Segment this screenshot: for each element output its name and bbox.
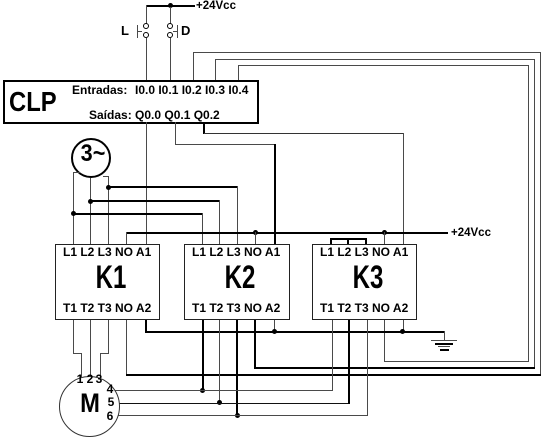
- pushbutton D actuator: [177, 25, 178, 38]
- ground symbol bar 3: [438, 346, 450, 347]
- node +24 bus K2 NO: [253, 230, 258, 235]
- wire +24 bus to K3 NO: [384, 232, 385, 245]
- ground symbol stem: [444, 331, 445, 340]
- wire input I0.3 riser: [215, 59, 216, 80]
- wire I0.2 bottom horizontal K1 NO feedback: [126, 374, 541, 376]
- wire I0.3 bottom horizontal K2 NO feedback: [254, 367, 535, 369]
- node ground bus K3 A2: [400, 329, 405, 334]
- wire +24Vcc top rail: [146, 5, 195, 7]
- label motor 6: [107, 410, 114, 422]
- wire Q0.1 drop: [175, 122, 176, 144]
- label K1 bottom pin row: [63, 302, 151, 314]
- wire K1 NO bottom feedback drop: [126, 320, 127, 376]
- label +24Vcc top: [196, 1, 236, 13]
- wire Q0.2 to K3 A1: [403, 133, 404, 245]
- ground symbol bar 4: [440, 349, 449, 351]
- label motor 4: [107, 383, 114, 395]
- wire Q0.2 horizontal: [204, 133, 404, 134]
- label Entradas: [72, 84, 127, 96]
- wire K1 A2 to ground bus: [145, 320, 147, 332]
- wire motor line 6: [118, 415, 367, 416]
- pushbutton L contact circles: [143, 23, 149, 29]
- node ground bus K2 A2: [272, 329, 277, 334]
- wire K1 T3 to motor 3: [108, 320, 109, 354]
- wire +24 bus to K1 NO: [126, 232, 127, 245]
- wire input I0.2 riser: [193, 52, 194, 80]
- motor M circle: [59, 376, 120, 437]
- ground symbol bar 1: [431, 340, 457, 341]
- wire L to input I0.0: [146, 38, 147, 80]
- label K2 top pin row: [192, 246, 280, 258]
- pushbutton L actuator: [137, 25, 138, 38]
- wire phase bus L3 to K2: [108, 186, 238, 188]
- node phase 1 tap: [71, 211, 76, 216]
- wire K3 T2 to motor line 5: [348, 320, 350, 404]
- label Saidas + outputs: [89, 109, 220, 121]
- wire K2 T2 to motor line 5: [219, 320, 220, 403]
- wire +24 bus to K2 NO: [255, 232, 256, 245]
- wire Q0.1 horizontal: [175, 144, 276, 145]
- wire I0.3 right vertical: [534, 59, 535, 369]
- wire rail to L button: [146, 5, 147, 24]
- node phase 3 tap: [106, 185, 111, 190]
- label K1 top pin row: [63, 246, 151, 258]
- wire +24Vcc bus: [126, 232, 448, 234]
- wire I0.2 top horizontal: [193, 52, 541, 53]
- wire I0.3 top horizontal: [215, 59, 535, 60]
- wire phase 1 from source: [73, 172, 80, 173]
- wire input I0.4 riser: [238, 65, 239, 80]
- label motor 1: [77, 373, 84, 385]
- node phase 2 tap: [88, 199, 93, 204]
- ground symbol bar 2: [435, 343, 453, 345]
- label motor 2: [87, 373, 94, 385]
- wire Q0.1 to K2 A1: [274, 144, 276, 245]
- wire K2 T1 to motor line 4: [202, 320, 204, 390]
- wire rail to D button: [170, 7, 171, 24]
- wire Q0.2 drop: [203, 122, 205, 134]
- wire K3 T3 to motor line 6: [367, 320, 368, 416]
- label +24Vcc right: [451, 228, 491, 240]
- wire phase bus L2 to K2: [90, 200, 220, 202]
- wire I0.4 top horizontal: [238, 65, 529, 66]
- node +24 bus K3 NO: [382, 230, 387, 235]
- label L: [121, 24, 129, 37]
- wire K1 T1 to motor 1: [73, 320, 74, 354]
- K3 star bridge: [330, 238, 367, 240]
- wire phase bus L1 to K2: [73, 213, 203, 215]
- wire phase 2 from source: [90, 178, 91, 245]
- wire ground bus: [145, 331, 445, 333]
- label M: [80, 390, 100, 417]
- label D: [181, 24, 190, 37]
- three-phase source 3~: [71, 138, 111, 178]
- contactor K1 box: [55, 244, 160, 320]
- wire K1 T2 to motor 2: [90, 320, 91, 377]
- label K3 top pin row: [320, 246, 408, 258]
- label motor 5: [108, 396, 115, 408]
- node junction top rail to D branch: [168, 3, 173, 8]
- label 3~: [81, 142, 106, 166]
- wire I0.2 right vertical: [540, 52, 541, 376]
- wire K3 T1 to motor line 4: [332, 320, 333, 391]
- label K2 bottom pin row: [192, 302, 280, 314]
- wire I0.4 bottom horizontal K3 NO feedback: [384, 361, 529, 362]
- node motor line 6 K2 T3: [235, 413, 240, 418]
- label inputs I0.0-I0.4: [135, 84, 248, 96]
- wire K2 A2 drop: [274, 320, 275, 332]
- label K2: [225, 261, 256, 293]
- wire K3 A2 drop: [403, 320, 404, 332]
- wire K2 T3 to motor line 6: [236, 320, 238, 416]
- contactor K2 box: [184, 244, 290, 320]
- node motor line 4 K2 T1: [200, 388, 205, 393]
- wire phase 3 from source: [103, 176, 109, 177]
- wire I0.4 right vertical: [528, 65, 529, 362]
- node motor line 5 K2 T2: [217, 400, 222, 405]
- label K3: [353, 261, 384, 293]
- pushbutton D contact circles: [167, 23, 173, 29]
- label K1: [96, 261, 127, 293]
- PLC box CLP: [3, 80, 259, 124]
- label K3 bottom pin row: [320, 302, 408, 314]
- label CLP: [9, 88, 57, 116]
- wire K3 NO bottom feedback drop: [384, 320, 385, 361]
- label motor 3: [96, 373, 103, 385]
- wire motor line 5: [119, 403, 349, 404]
- wire K2 NO bottom feedback drop: [254, 320, 256, 368]
- contactor K3 box: [312, 244, 417, 320]
- wire motor line 4: [115, 390, 333, 391]
- wire Q0.0 to K1 A1: [146, 122, 147, 245]
- wire D to input I0.1: [170, 38, 171, 80]
